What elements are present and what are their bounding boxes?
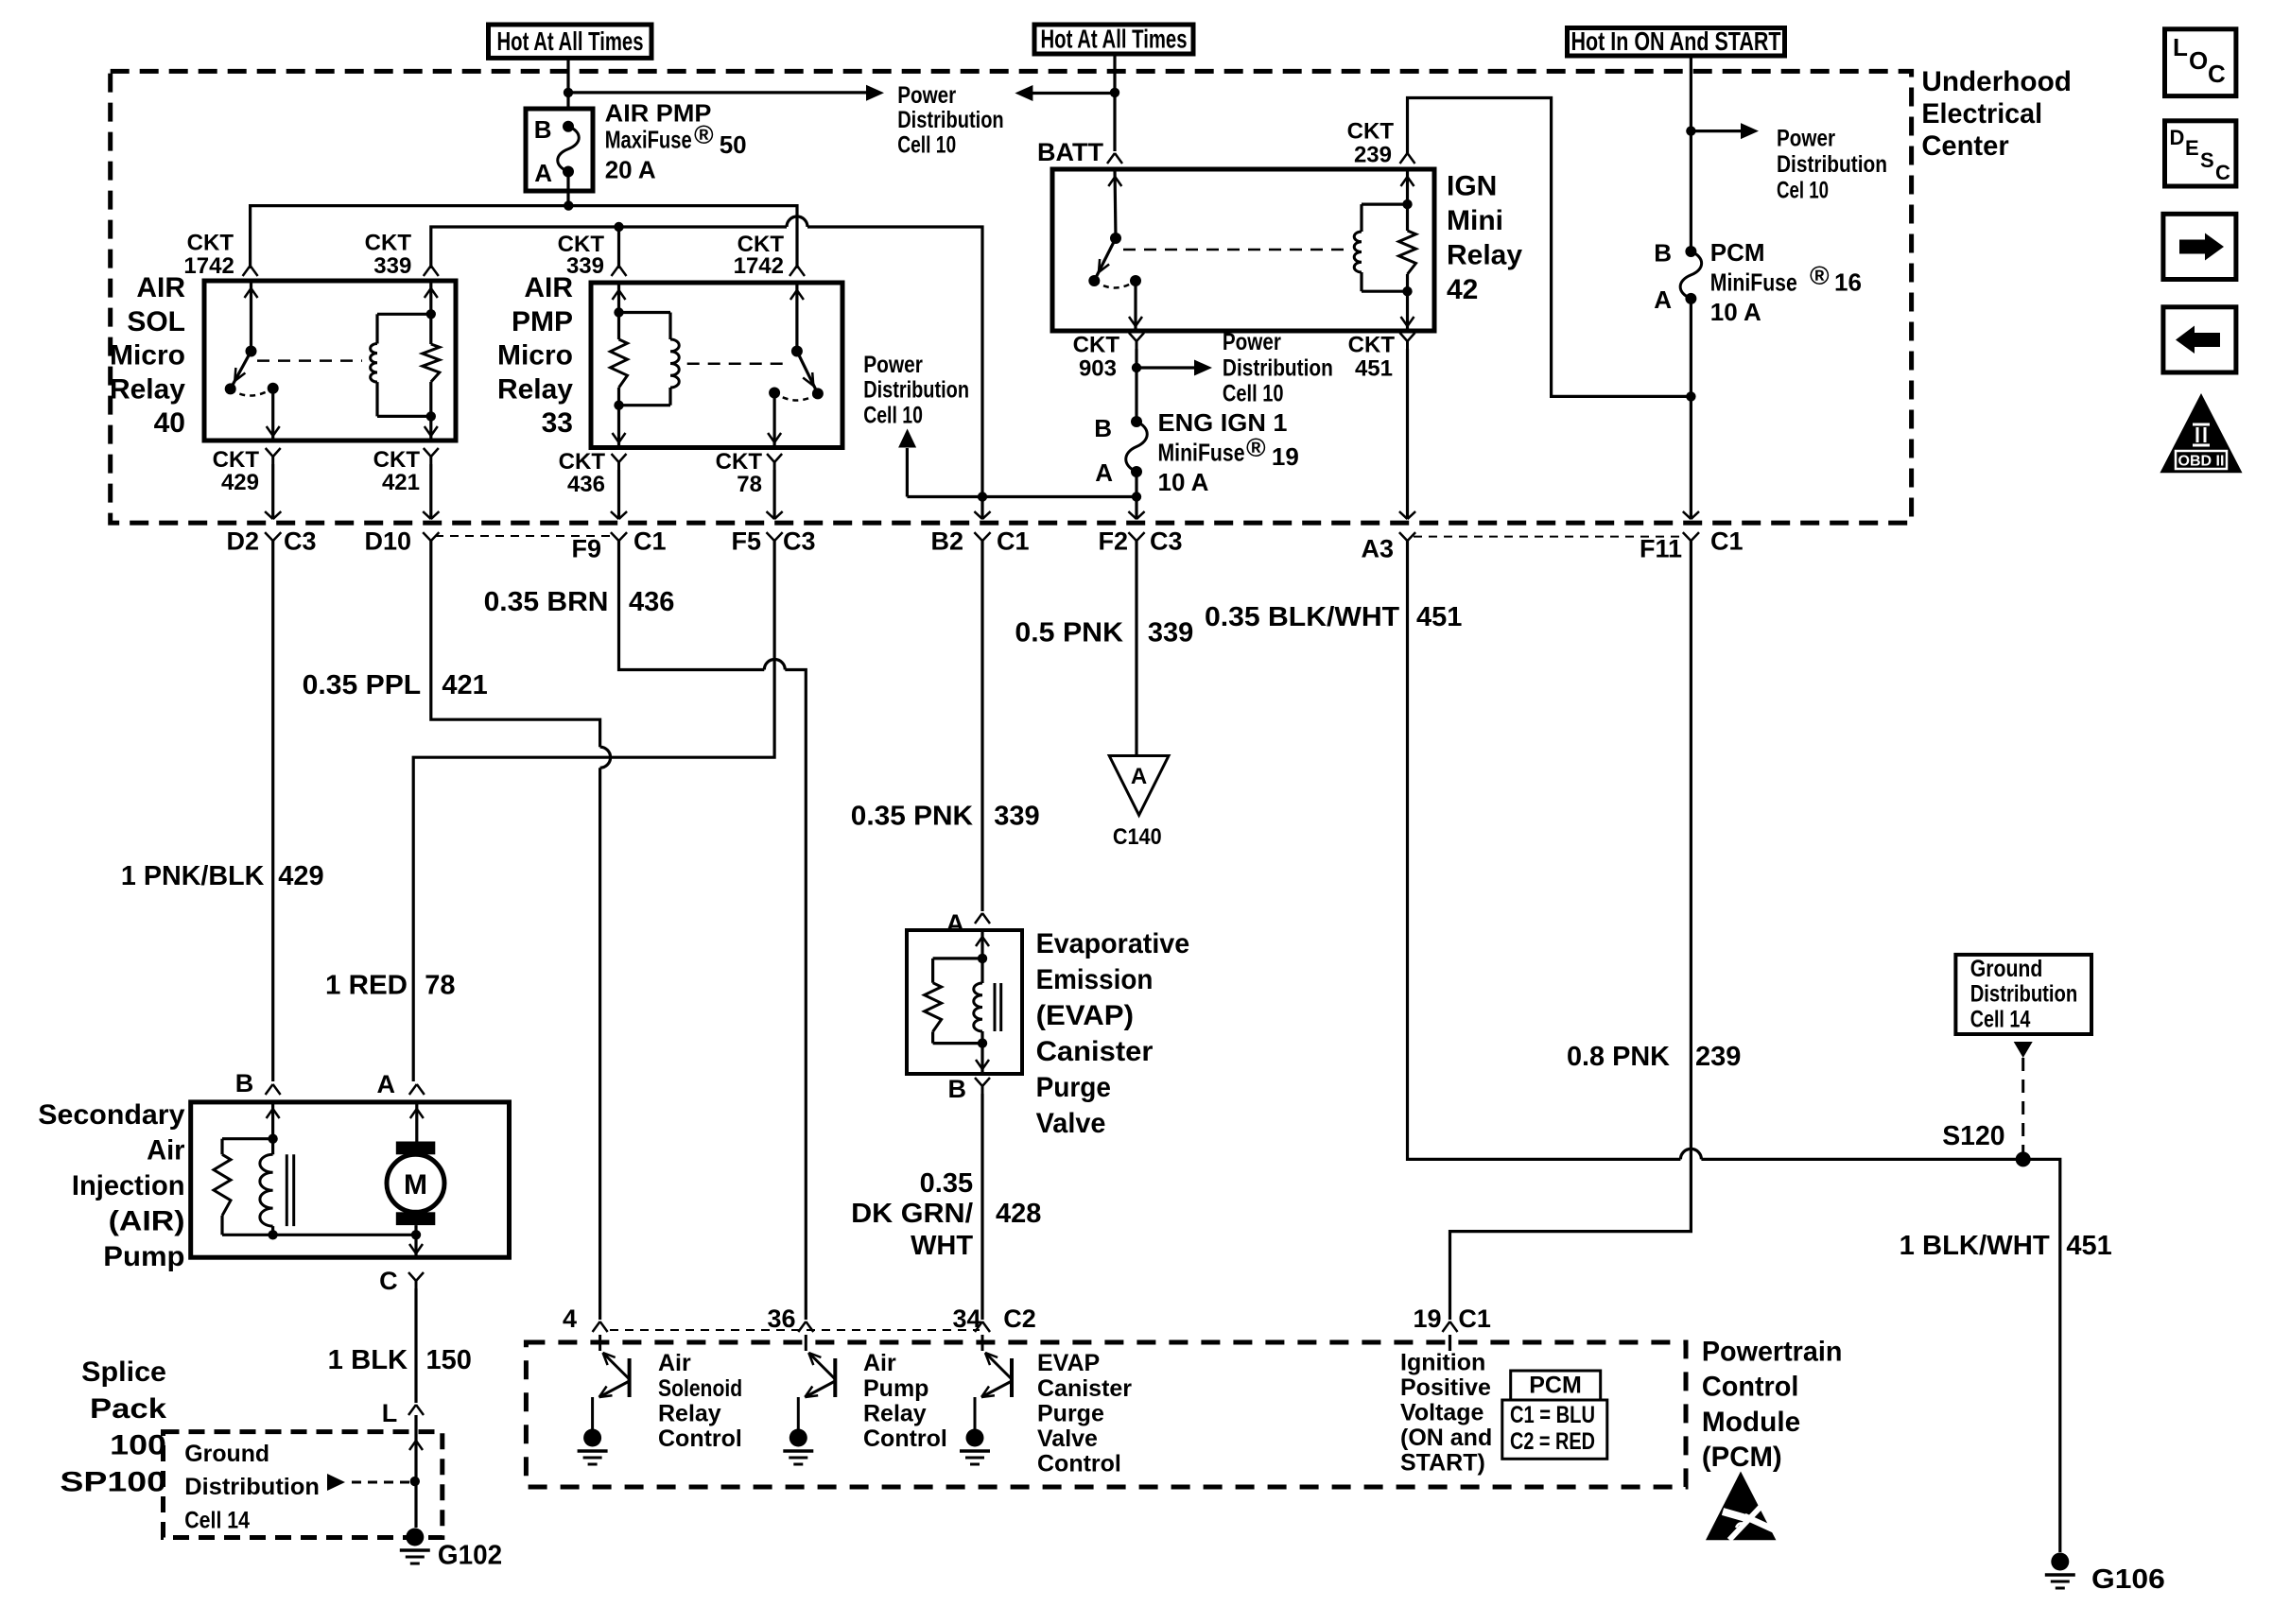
terminal F11/C1 (CKT 239 exit) (1640, 511, 1744, 563)
svg-text:436: 436 (629, 587, 674, 617)
label: CKT 903 (1073, 332, 1120, 381)
label: CKT 436 (559, 449, 606, 497)
svg-text:D10: D10 (364, 527, 411, 556)
svg-text:0.8 PNK: 0.8 PNK (1567, 1042, 1670, 1072)
terminal: CKT 78 under AIR PMP relay (767, 454, 782, 519)
svg-text:421: 421 (382, 470, 420, 495)
transistor driver: Air Solenoid Relay Control (578, 1335, 630, 1464)
svg-text:L: L (2173, 33, 2188, 61)
svg-text:Distribution: Distribution (1970, 981, 2078, 1008)
svg-text:C3: C3 (1150, 527, 1183, 556)
label: Power Distribution Cel 10 (top right) (1777, 126, 1887, 204)
svg-text:239: 239 (1695, 1042, 1741, 1072)
svg-text:S: S (2200, 148, 2214, 172)
label: 1 PNK/BLK 429 (121, 861, 324, 891)
label: AIR PMP Micro Relay 33 (497, 272, 573, 439)
power source label: Hot At All Times (middle) (1034, 25, 1193, 55)
svg-text:®: ® (1246, 433, 1266, 462)
svg-text:16: 16 (1834, 268, 1862, 297)
svg-text:C: C (2215, 161, 2230, 184)
svg-text:AIR: AIR (524, 272, 573, 303)
icon: DESC box (2165, 121, 2236, 186)
svg-text:C1: C1 (1710, 527, 1744, 556)
svg-text:(PCM): (PCM) (1702, 1442, 1782, 1473)
svg-text:A: A (534, 159, 552, 187)
svg-text:Voltage: Voltage (1400, 1400, 1484, 1426)
wire: 0.35 PPL 421 (D10 to PCM pin 4) (431, 541, 611, 1320)
svg-text:A3: A3 (1361, 535, 1394, 563)
wire: MaxiFuse output bus CKT 1742 to both relay switches (251, 191, 797, 268)
svg-text:0.35: 0.35 (920, 1168, 973, 1199)
terminal pin 4 (Air Solenoid Relay Control) (563, 1304, 608, 1333)
label: CKT 339 (AIR SOL relay) (365, 231, 412, 280)
svg-text:Cell 10: Cell 10 (1223, 381, 1284, 407)
wire: dashed drop from Ground Distribution Cell 14 to splice S120 (2014, 1042, 2033, 1159)
splice S120 label (1942, 1121, 2004, 1151)
svg-text:451: 451 (2066, 1231, 2111, 1261)
svg-text:4: 4 (563, 1304, 577, 1333)
terminal pin 19/C1 (Ignition Positive Voltage) (1413, 1304, 1490, 1333)
svg-text:Air: Air (658, 1350, 691, 1376)
svg-text:Micro: Micro (497, 340, 573, 371)
terminal C at AIR pump (379, 1267, 424, 1403)
relay K40: AIR SOL Micro Relay 40 (204, 281, 456, 441)
svg-text:B: B (1654, 239, 1672, 268)
svg-text:Power: Power (863, 352, 923, 378)
label: Power Distribution Cell 10 (top) (897, 82, 1003, 159)
svg-text:Cel 10: Cel 10 (1777, 177, 1829, 203)
icon: LOC box (2165, 29, 2236, 96)
svg-text:Cell 14: Cell 14 (1970, 1006, 2031, 1032)
svg-text:1 PNK/BLK: 1 PNK/BLK (121, 861, 265, 891)
svg-text:C3: C3 (284, 527, 317, 556)
svg-text:Pack: Pack (90, 1393, 166, 1425)
Underhood Electrical Center enclosure (dashed) (111, 71, 1912, 523)
icon: back arrow box (2163, 307, 2236, 372)
label: CKT 1742 (AIR SOL relay) (183, 231, 234, 280)
svg-text:ENG IGN 1: ENG IGN 1 (1158, 408, 1288, 437)
svg-text:B: B (948, 1075, 967, 1103)
svg-text:Control: Control (658, 1425, 742, 1452)
svg-text:Hot In ON And START: Hot In ON And START (1571, 26, 1781, 56)
svg-text:451: 451 (1416, 602, 1462, 632)
solenoid valve: EVAP canister purge valve (907, 930, 1022, 1074)
wire: CKT 239 feed from PCM fuse line (1408, 98, 1696, 402)
svg-text:Underhood: Underhood (1921, 66, 2071, 97)
svg-text:WHT: WHT (911, 1231, 973, 1261)
wire: 0.5 PNK 339 (F2 to C140) (1135, 541, 1137, 754)
label: IGN Mini Relay 42 (1447, 171, 1522, 305)
svg-text:Relay: Relay (110, 373, 185, 405)
connector C140 (triangle) (1109, 756, 1169, 851)
terminal A3 (CKT 451 exit) (1361, 511, 1415, 563)
svg-text:19: 19 (1272, 442, 1299, 471)
svg-text:AIR: AIR (136, 272, 185, 303)
terminal: CKT 436 under AIR PMP relay (612, 454, 627, 519)
svg-text:MiniFuse: MiniFuse (1158, 439, 1245, 467)
svg-text:Purge: Purge (1036, 1072, 1111, 1103)
svg-text:START): START) (1400, 1450, 1485, 1477)
svg-text:20 A: 20 A (605, 156, 656, 184)
label: 0.35 PPL 421 (303, 670, 488, 700)
wire: 0.8 PNK 239 (F11 to PCM pin 19) (1450, 541, 1692, 1320)
label: 0.35 BRN 436 (484, 587, 675, 617)
svg-text:Air: Air (147, 1134, 185, 1166)
relay K42: IGN Mini Relay 42 (1052, 169, 1434, 331)
svg-text:(ON and: (ON and (1400, 1425, 1492, 1451)
wire: 0.35 BRN 436 (F9 to PCM pin 36) (619, 541, 807, 1320)
svg-text:PCM: PCM (1710, 238, 1765, 267)
label: Secondary Air Injection (AIR) Pump (38, 1099, 185, 1272)
terminal pin 34/C2 (EVAP Canister Purge Valve Control) (952, 1304, 1035, 1333)
label: 1 RED 78 (325, 970, 455, 1000)
terminal: CKT 339 at AIR PMP relay (612, 266, 627, 276)
svg-text:SP100: SP100 (60, 1466, 166, 1497)
terminal F5/C3 (CKT 78 exit) (731, 511, 815, 556)
terminal A at EVAP valve (946, 909, 991, 938)
wire: Hot At All Times (middle) down to BATT terminal (1113, 56, 1116, 151)
transistor driver: Air Pump Relay Control (783, 1335, 835, 1464)
svg-text:C1: C1 (633, 527, 667, 556)
svg-text:(AIR): (AIR) (109, 1205, 185, 1236)
svg-text:Control: Control (863, 1425, 947, 1452)
label: AIR SOL Micro Relay 40 (110, 272, 185, 439)
svg-text:C: C (379, 1267, 398, 1295)
label: CKT 1742 (AIR PMP relay) (734, 232, 785, 279)
svg-text:78: 78 (737, 472, 762, 497)
label: CKT 339 (AIR PMP relay) (558, 232, 605, 279)
svg-text:B: B (235, 1069, 254, 1097)
svg-text:Air: Air (863, 1350, 896, 1376)
box: Ground Distribution Cell 14 (right) (1955, 955, 2091, 1034)
svg-text:EVAP: EVAP (1037, 1350, 1100, 1376)
terminal: CKT 429 under AIR SOL relay (266, 448, 281, 519)
svg-text:CKT: CKT (187, 231, 234, 256)
svg-text:MaxiFuse: MaxiFuse (605, 126, 692, 154)
svg-text:CKT: CKT (1348, 332, 1396, 357)
terminal B at EVAP valve (948, 1075, 991, 1320)
Powertrain Control Module enclosure (dashed) (526, 1342, 1686, 1487)
terminal F2/C3 (CKT 339/903 exit) (1098, 511, 1182, 556)
svg-text:C: C (2208, 60, 2226, 88)
ESD sensitivity symbol (1706, 1472, 1778, 1541)
svg-text:C1 = BLU: C1 = BLU (1510, 1402, 1595, 1428)
svg-text:CKT: CKT (716, 449, 763, 475)
svg-text:1742: 1742 (183, 253, 234, 279)
svg-text:429: 429 (278, 861, 323, 891)
svg-text:A: A (1131, 764, 1147, 789)
label: Splice Pack 100 SP100 (60, 1356, 166, 1497)
label: Powertrain Control Module (PCM) (1702, 1336, 1843, 1473)
svg-text:903: 903 (1079, 356, 1117, 382)
svg-text:F11: F11 (1640, 535, 1682, 563)
svg-text:Power: Power (1223, 329, 1281, 355)
label: AIR PMP MaxiFuse 50 20 A (605, 98, 747, 183)
svg-text:Solenoid: Solenoid (658, 1375, 742, 1402)
label: ENG IGN 1 MiniFuse 19 10 A (1158, 408, 1299, 496)
svg-text:Emission: Emission (1036, 964, 1154, 995)
label: Ignition Positive Voltage (ON and START) (1400, 1349, 1492, 1476)
svg-text:Positive: Positive (1400, 1374, 1491, 1401)
svg-text:1 BLK/WHT: 1 BLK/WHT (1900, 1231, 2050, 1261)
wire: 1 RED 78 (F5 to AIR pump A) (413, 541, 774, 1081)
svg-text:451: 451 (1355, 356, 1393, 382)
connector C2 dashed continuation (pins 4-34) (610, 1329, 980, 1331)
wire: Hot At All Times (left) to AIR PMP MaxiFuse (564, 60, 573, 109)
svg-text:Cell 14: Cell 14 (184, 1507, 250, 1533)
svg-text:Hot At All Times: Hot At All Times (1041, 25, 1188, 54)
icon: forward arrow box (2163, 214, 2236, 279)
ground G106 (2045, 1553, 2165, 1596)
label: BATT (1037, 138, 1103, 166)
svg-text:(EVAP): (EVAP) (1036, 1000, 1134, 1031)
svg-text:C1: C1 (1458, 1304, 1491, 1333)
wire: ENG IGN 1 fuse output to F2 (1132, 472, 1141, 519)
svg-text:Valve: Valve (1036, 1108, 1106, 1139)
wire: dashed pointer Ground Distribution to splice (327, 1474, 409, 1491)
svg-text:Powertrain: Powertrain (1702, 1336, 1843, 1367)
svg-text:1 BLK: 1 BLK (328, 1345, 408, 1375)
svg-text:Relay: Relay (497, 373, 573, 405)
terminal: CKT 421 under AIR SOL relay (424, 448, 439, 519)
wire: 0.35 PNK 339 (B2 to EVAP A) (980, 541, 983, 911)
svg-text:CKT: CKT (365, 231, 412, 256)
svg-text:OBD II: OBD II (2178, 454, 2225, 470)
svg-text:Mini: Mini (1447, 205, 1503, 236)
svg-text:40: 40 (154, 407, 185, 439)
svg-text:Electrical: Electrical (1921, 98, 2042, 130)
label: Air Pump Relay Control (863, 1350, 947, 1452)
svg-text:A: A (1654, 285, 1672, 314)
splice pack enclosure (dashed) (164, 1432, 442, 1538)
label: 0.35 DK GRN/WHT 428 (851, 1168, 1041, 1261)
terminal: CKT 339 at AIR SOL relay (424, 266, 439, 276)
svg-text:A: A (1095, 458, 1113, 487)
terminal: CKT 1742 at AIR PMP relay (789, 266, 805, 276)
svg-text:436: 436 (567, 472, 605, 497)
wire: branch to Power Distribution Cell 10 (up arrow) (898, 429, 916, 497)
svg-text:Pump: Pump (863, 1375, 928, 1402)
svg-text:G106: G106 (2091, 1564, 2165, 1595)
svg-text:S120: S120 (1942, 1121, 2004, 1151)
svg-text:42: 42 (1447, 274, 1478, 305)
fuse F50: AIR PMP MaxiFuse 50 20 A (526, 109, 593, 191)
svg-text:10 A: 10 A (1710, 298, 1761, 326)
svg-text:1742: 1742 (734, 253, 784, 279)
svg-text:®: ® (694, 120, 714, 149)
svg-text:Relay: Relay (863, 1400, 927, 1426)
connector C1 dashed continuation (D10-F9) (435, 535, 610, 537)
svg-text:B2: B2 (930, 527, 963, 556)
svg-text:0.35 PPL: 0.35 PPL (303, 670, 422, 700)
svg-text:Hot At All Times: Hot At All Times (497, 26, 644, 56)
svg-text:Ground: Ground (184, 1441, 269, 1467)
svg-text:B: B (534, 115, 552, 144)
svg-text:CKT: CKT (559, 449, 606, 475)
label: Underhood Electrical Center (1921, 66, 2071, 162)
svg-text:Evaporative: Evaporative (1036, 928, 1190, 959)
svg-text:DK GRN/: DK GRN/ (851, 1199, 973, 1229)
transistor driver: EVAP Canister Purge Valve Control (960, 1335, 1012, 1464)
svg-text:PMP: PMP (512, 306, 573, 337)
svg-text:0.35 BLK/WHT: 0.35 BLK/WHT (1205, 602, 1399, 632)
svg-text:CKT: CKT (1073, 332, 1120, 357)
svg-text:Purge: Purge (1037, 1400, 1104, 1426)
svg-text:150: 150 (426, 1345, 472, 1375)
svg-text:Distribution: Distribution (1223, 354, 1333, 381)
label: Ground Distribution Cell 14 (splice pack) (184, 1441, 320, 1533)
label: CKT 239 (1347, 119, 1395, 168)
svg-text:Module: Module (1702, 1407, 1800, 1438)
terminal: CKT 451 under IGN relay (1400, 333, 1415, 519)
label: Air Solenoid Relay Control (658, 1350, 742, 1452)
wire: branch arrow to Power Distribution Cel 10 (top right) (1691, 123, 1759, 139)
wire: CKT 903 branch arrow to Power Distribution Cell 10 (1132, 360, 1212, 376)
power source label: Hot In ON And START (1568, 26, 1785, 56)
ground G102 (400, 1529, 502, 1571)
terminal: CKT 239 at IGN relay (1400, 153, 1415, 164)
svg-text:Injection: Injection (72, 1170, 185, 1201)
power source label: Hot At All Times (left) (489, 25, 652, 58)
svg-text:B: B (1094, 414, 1112, 442)
svg-text:CKT: CKT (1347, 119, 1395, 145)
label: 0.35 BLK/WHT 451 (1205, 602, 1462, 632)
svg-text:19: 19 (1413, 1304, 1441, 1333)
svg-text:Control: Control (1037, 1451, 1121, 1477)
svg-text:Distribution: Distribution (897, 107, 1003, 133)
svg-text:Pump: Pump (103, 1241, 184, 1272)
svg-text:Micro: Micro (110, 340, 185, 371)
svg-text:Valve: Valve (1037, 1425, 1098, 1452)
svg-text:BATT: BATT (1037, 138, 1103, 166)
label: 1 BLK 150 (328, 1345, 472, 1375)
label: 0.5 PNK 339 (1015, 618, 1193, 648)
svg-text:SOL: SOL (127, 306, 185, 337)
motor: Secondary Air Injection (AIR) Pump (191, 1102, 510, 1257)
svg-text:Secondary: Secondary (38, 1099, 185, 1131)
svg-text:1 RED: 1 RED (325, 970, 408, 1000)
PCM connector legend box (1502, 1371, 1607, 1459)
svg-text:50: 50 (720, 130, 747, 159)
svg-text:C2: C2 (1003, 1304, 1036, 1333)
svg-text:429: 429 (221, 470, 259, 495)
svg-text:Ignition: Ignition (1400, 1349, 1485, 1375)
wire: CKT 339 link (fuse output to EVAP bus and Power-Dist arrow) (907, 495, 1136, 498)
svg-text:Canister: Canister (1037, 1375, 1132, 1402)
wire: feed from Hot At All Times (middle), arrow left (1015, 85, 1119, 101)
svg-text:Relay: Relay (1447, 240, 1522, 271)
svg-text:Cell 10: Cell 10 (863, 402, 923, 428)
terminal L at splice pack (382, 1399, 424, 1427)
svg-text:Splice: Splice (81, 1356, 166, 1388)
label: CKT 451 (1348, 332, 1396, 381)
label: CKT 78 (716, 449, 763, 497)
label: Evaporative Emission (EVAP) Canister Purge Valve (1036, 928, 1190, 1139)
svg-text:421: 421 (442, 670, 487, 700)
svg-text:Cell 10: Cell 10 (897, 132, 956, 159)
svg-text:F2: F2 (1098, 527, 1128, 556)
svg-text:239: 239 (1354, 143, 1392, 168)
svg-text:Canister: Canister (1036, 1036, 1154, 1067)
connector C1 dashed continuation (A3-F11) (1414, 536, 1685, 538)
svg-text:F5: F5 (731, 527, 761, 556)
svg-text:36: 36 (767, 1304, 795, 1333)
svg-text:Control: Control (1702, 1372, 1799, 1403)
svg-text:339: 339 (994, 802, 1039, 832)
svg-text:E: E (2185, 136, 2199, 160)
terminal pin 36 (Air Pump Relay Control) (767, 1304, 813, 1333)
svg-text:MiniFuse: MiniFuse (1710, 268, 1797, 297)
svg-text:®: ® (1810, 261, 1830, 290)
svg-text:Ground: Ground (1970, 956, 2043, 982)
svg-text:C3: C3 (783, 527, 816, 556)
svg-text:D2: D2 (226, 527, 259, 556)
svg-text:A: A (946, 909, 965, 938)
svg-text:G102: G102 (438, 1541, 502, 1571)
label: CKT 421 (373, 447, 421, 495)
wire: PCM fuse output down to F11 (1690, 299, 1692, 519)
label: Power Distribution Cell 10 (at CKT 903) (1223, 329, 1333, 406)
label: Power Distribution Cell 10 (centre) (863, 352, 969, 428)
svg-text:100: 100 (110, 1430, 166, 1461)
svg-text:Center: Center (1921, 130, 2009, 162)
svg-text:33: 33 (542, 407, 573, 439)
terminal F9/C1 (CKT 436 exit) (571, 511, 666, 563)
svg-text:C140: C140 (1113, 824, 1162, 850)
svg-text:0.35 PNK: 0.35 PNK (851, 802, 973, 832)
svg-text:L: L (382, 1399, 398, 1427)
wire: feed to Power Distribution Cell 10 (top left, arrow right) (568, 85, 884, 101)
label: 0.35 PNK 339 (851, 802, 1040, 832)
label: CKT 429 (213, 447, 260, 495)
icon: OBD II triangle (2160, 393, 2242, 473)
terminal: CKT 903 under IGN relay (1129, 333, 1144, 417)
label: EVAP Canister Purge Valve Control (1037, 1350, 1132, 1477)
relay K33: AIR PMP Micro Relay 33 (591, 283, 842, 448)
svg-text:Distribution: Distribution (184, 1474, 320, 1500)
svg-text:428: 428 (996, 1199, 1041, 1229)
svg-text:Power: Power (897, 82, 956, 109)
label: 0.8 PNK 239 (1567, 1042, 1741, 1072)
terminal: CKT 1742 at AIR SOL relay (243, 266, 258, 276)
svg-text:O: O (2189, 46, 2208, 75)
svg-text:34: 34 (952, 1304, 980, 1333)
svg-text:10 A: 10 A (1158, 468, 1209, 496)
svg-text:CKT: CKT (373, 447, 421, 473)
svg-text:A: A (377, 1070, 396, 1098)
fuse F19: ENG IGN 1 MiniFuse 19 10 A (1094, 414, 1147, 487)
terminal B at AIR pump (235, 1069, 281, 1097)
wire: CKT 339 ignition feed bus (431, 216, 987, 519)
svg-text:C1: C1 (997, 527, 1030, 556)
terminal D2/C3 (CKT 429 exit) (226, 511, 316, 556)
wire: 1 PNK/BLK 429 (D2 to AIR pump B) (271, 541, 274, 1081)
svg-text:339: 339 (373, 253, 411, 279)
wire: L to G102 inside splice pack (409, 1415, 423, 1528)
svg-text:Distribution: Distribution (863, 377, 969, 404)
fuse F16: PCM MiniFuse 16 10 A (1654, 239, 1701, 315)
label: PCM MiniFuse 16 10 A (1710, 238, 1862, 326)
terminal A at AIR pump (377, 1070, 425, 1098)
svg-text:D: D (2170, 126, 2185, 149)
terminal D10 (CKT 421 exit) (364, 511, 439, 556)
label: 1 BLK/WHT 451 (1900, 1231, 2112, 1261)
svg-text:F9: F9 (571, 535, 601, 563)
svg-text:IGN: IGN (1447, 171, 1497, 202)
svg-text:0.5 PNK: 0.5 PNK (1015, 618, 1123, 648)
terminal B2/C1 (CKT 339 exit) (930, 511, 1029, 556)
svg-text:Power: Power (1777, 126, 1835, 152)
